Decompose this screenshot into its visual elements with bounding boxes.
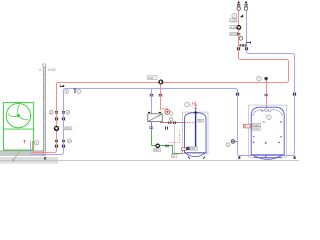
svg-text:HA04: HA04	[252, 124, 259, 127]
svg-text:IL114: IL114	[230, 25, 237, 29]
svg-text:HT06: HT06	[64, 126, 71, 130]
svg-text:C06: C06	[148, 76, 153, 80]
svg-text:d: d	[39, 68, 41, 72]
svg-text:ILT14: ILT14	[230, 32, 237, 36]
svg-text:L1G2: L1G2	[230, 19, 237, 23]
svg-text:K04: K04	[190, 148, 195, 151]
svg-text:U192: U192	[48, 68, 56, 72]
svg-text:UA08: UA08	[252, 128, 259, 131]
svg-text:b06: b06	[154, 149, 159, 152]
